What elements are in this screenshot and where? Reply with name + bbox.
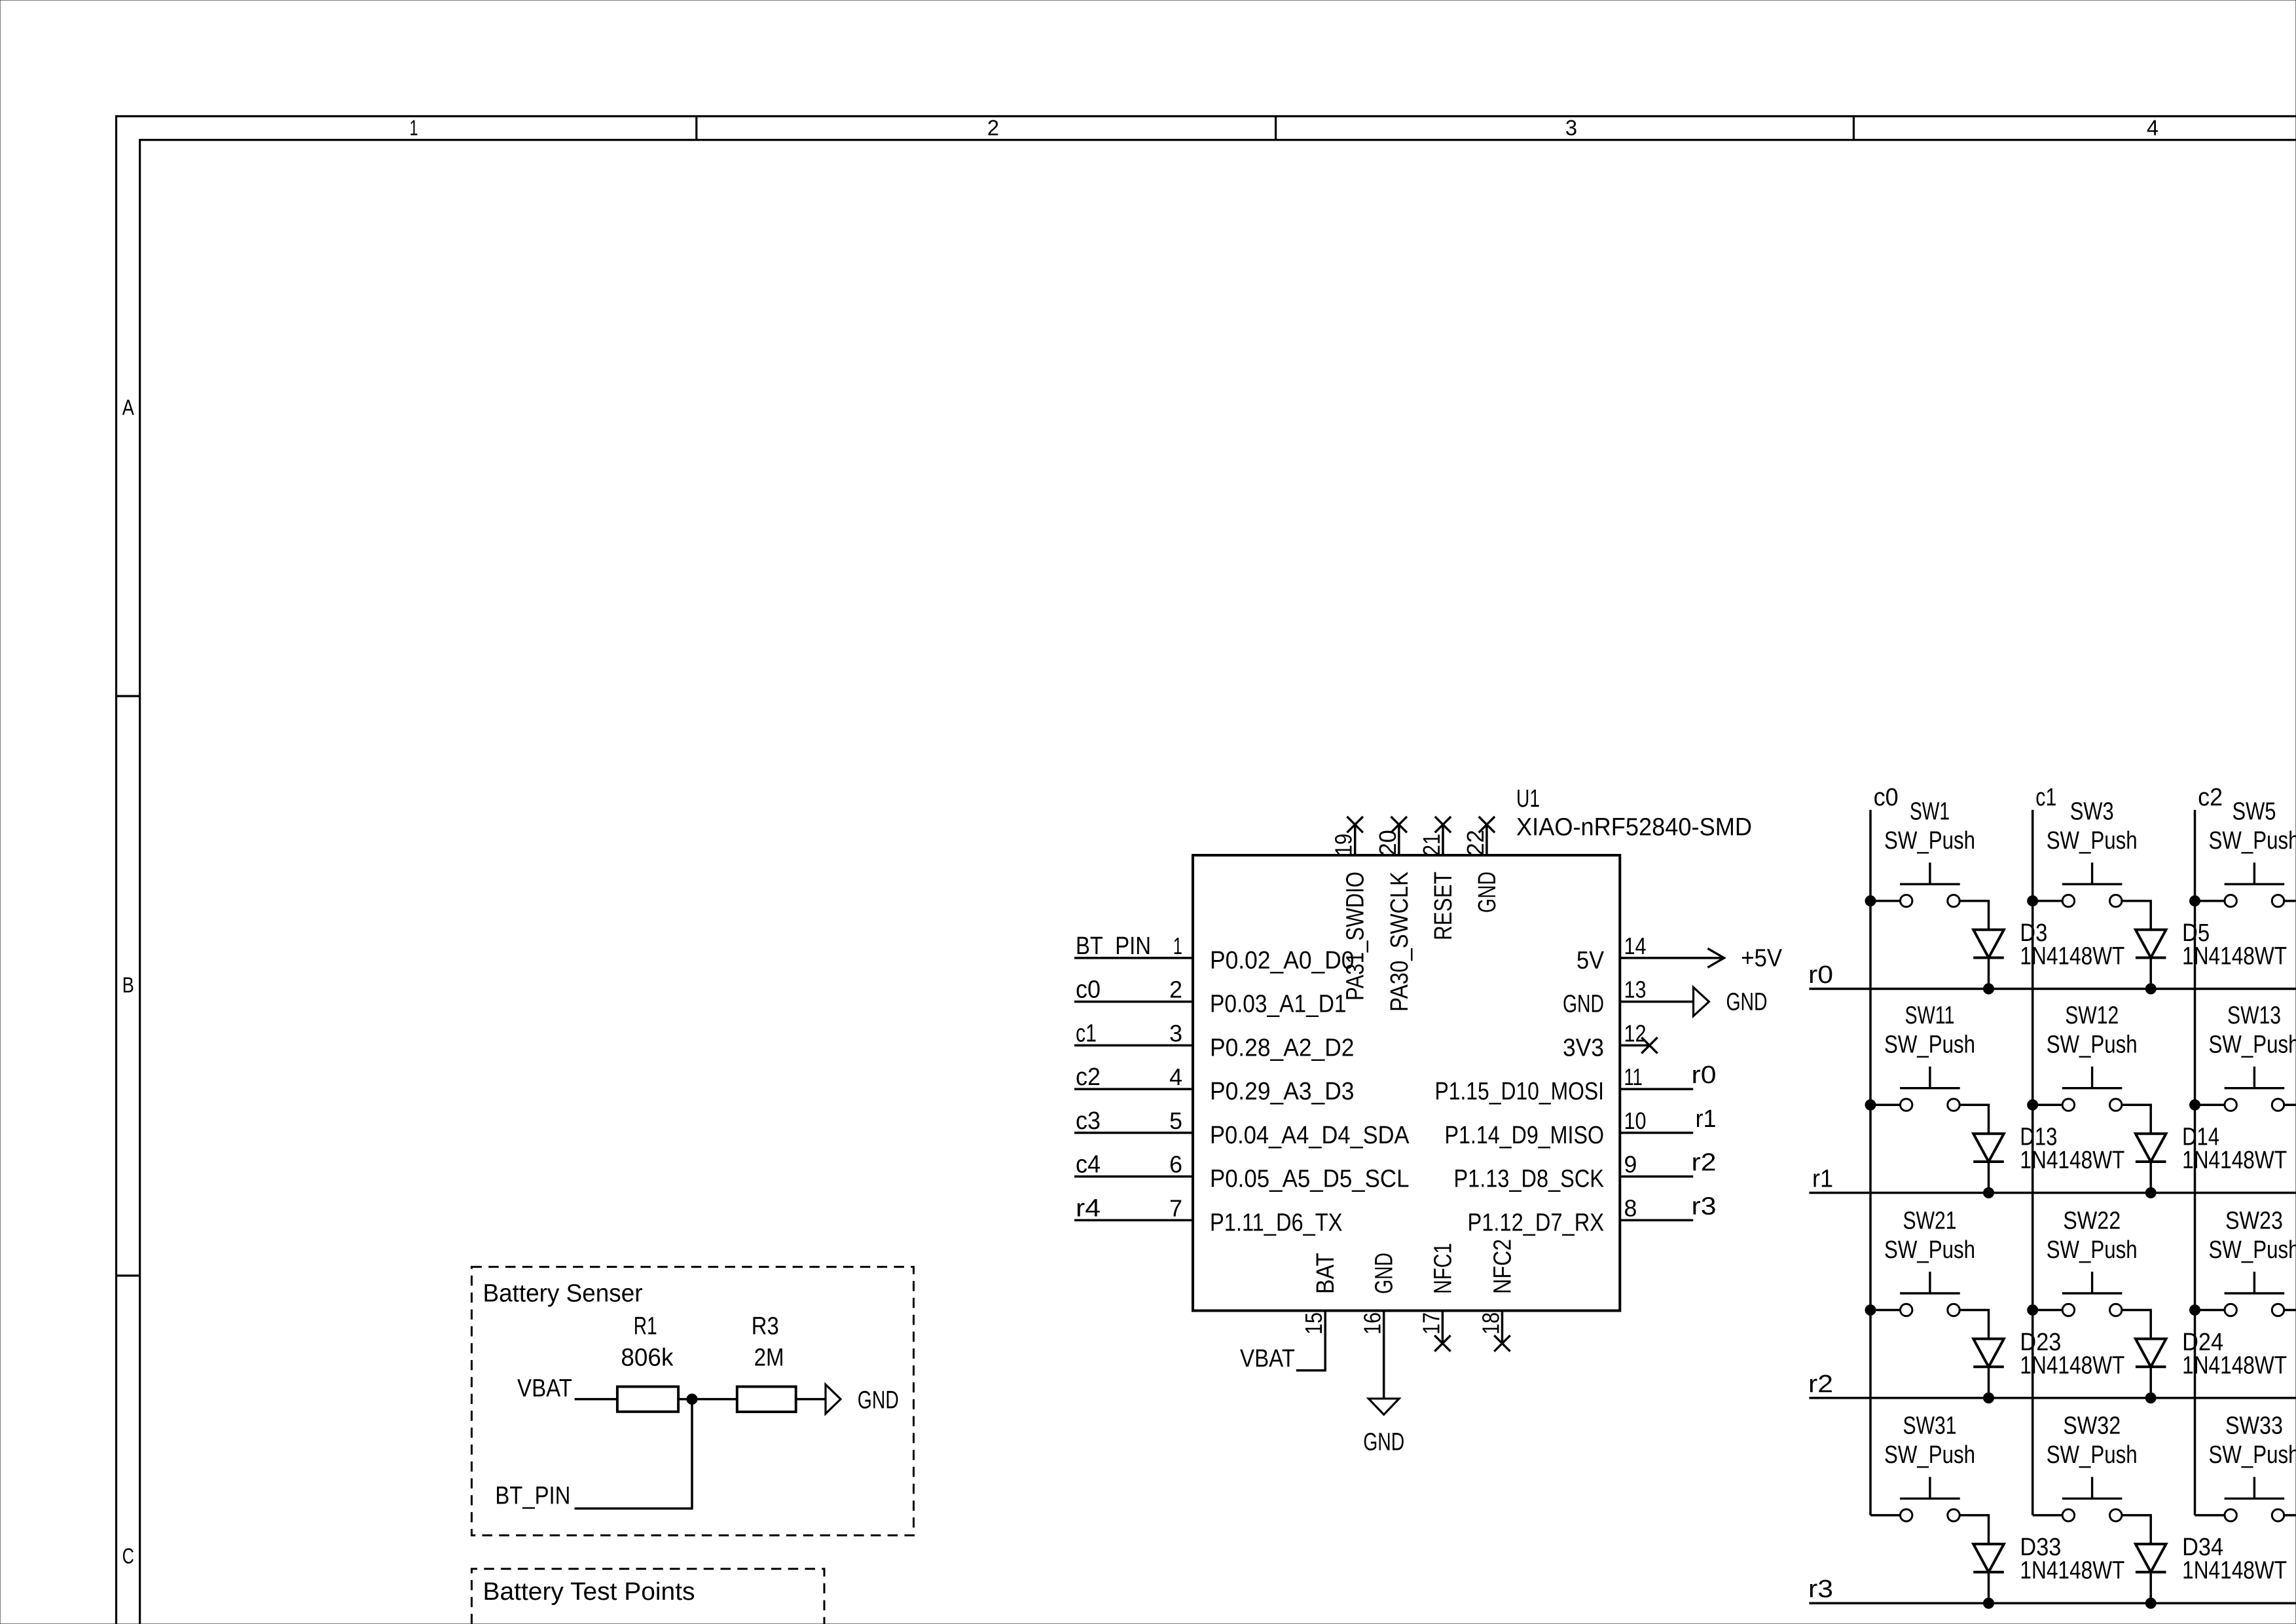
switch SW23 actuator bar <box>2225 1292 2285 1294</box>
svg-text:c1: c1 <box>1076 1020 1097 1047</box>
junction node c1 / SW22 <box>2028 1305 2038 1316</box>
svg-text:r2: r2 <box>1808 1371 1833 1398</box>
wire R1 to R3 <box>678 1398 737 1401</box>
svg-text:SW33: SW33 <box>2225 1412 2283 1440</box>
diode D3 symbol <box>1973 930 2004 958</box>
svg-text:10: 10 <box>1624 1107 1647 1134</box>
U1 pin 17 NFC1 stub <box>1442 1311 1444 1344</box>
switch SW23 right contact <box>2272 1304 2284 1316</box>
no-connect X on pin 17 <box>1434 1335 1450 1351</box>
switch SW3 left contact <box>2062 895 2074 907</box>
switch SW33 left contact <box>2225 1509 2236 1521</box>
switch SW12 actuator bar <box>2062 1087 2123 1089</box>
wire c0 to SW11 pin 1 <box>1870 1103 1901 1106</box>
wire c2 to SW23 pin 1 <box>2195 1309 2225 1312</box>
U1 pin 18 NFC2 stub <box>1501 1311 1504 1344</box>
switch SW33 actuator bar <box>2225 1498 2285 1500</box>
svg-text:SW_Push: SW_Push <box>2209 1236 2296 1264</box>
U1 pin 7 (P1.11_D6_TX) wire <box>1074 1219 1193 1222</box>
svg-text:NFC2: NFC2 <box>1489 1239 1517 1294</box>
svg-text:BT_PIN: BT_PIN <box>1076 932 1151 960</box>
U1 pin 10 wire <box>1620 1132 1693 1134</box>
switch SW32 right contact <box>2110 1509 2122 1521</box>
switch SW31 right contact <box>1948 1509 1959 1521</box>
wire c1 to SW12 pin 1 <box>2033 1103 2063 1106</box>
switch SW11 right contact <box>1948 1099 1959 1111</box>
column net c0 wire <box>1869 810 1872 1515</box>
diode cathode wire to row <box>2149 1572 2152 1604</box>
svg-text:GND: GND <box>858 1386 899 1414</box>
power symbol GND flag <box>1694 987 1709 1016</box>
svg-text:4: 4 <box>2147 116 2159 140</box>
switch SW31 actuator bar <box>1900 1498 1960 1500</box>
wire SW31 pin 2 to diode <box>1959 1515 1988 1544</box>
svg-text:SW_Push: SW_Push <box>2209 827 2296 855</box>
no-connect X on pin 19 <box>1347 817 1363 832</box>
svg-text:18: 18 <box>1478 1312 1504 1335</box>
switch SW12 left contact <box>2062 1099 2074 1111</box>
svg-text:VBAT: VBAT <box>517 1375 572 1402</box>
svg-text:P1.11_D6_TX: P1.11_D6_TX <box>1210 1209 1343 1236</box>
wire c2 to SW5 pin 1 <box>2195 900 2225 902</box>
switch SW11 actuator bar <box>1900 1087 1960 1089</box>
wire c0 to SW21 pin 1 <box>1870 1309 1901 1312</box>
diode cathode wire to row <box>1988 958 1990 989</box>
svg-text:SW1: SW1 <box>1910 798 1950 826</box>
diode D34 symbol <box>2136 1544 2166 1572</box>
wire SW22 pin 2 to diode <box>2122 1310 2151 1339</box>
switch SW5 actuator stem <box>2253 862 2255 884</box>
row net r0 wire <box>1809 987 2296 990</box>
junction node c0 / SW11 <box>1865 1099 1876 1110</box>
svg-text:6: 6 <box>1169 1151 1182 1178</box>
svg-text:C: C <box>122 1543 134 1568</box>
svg-text:r0: r0 <box>1808 961 1833 989</box>
svg-text:1N4148WT: 1N4148WT <box>2020 943 2124 970</box>
wire SW11 pin 2 to diode <box>1959 1105 1988 1134</box>
svg-text:NFC1: NFC1 <box>1429 1243 1457 1294</box>
svg-text:GND: GND <box>1474 872 1501 913</box>
svg-text:4: 4 <box>1169 1063 1182 1090</box>
switch SW22 actuator stem <box>2091 1272 2093 1293</box>
svg-text:3: 3 <box>1565 116 1577 140</box>
svg-text:SW_Push: SW_Push <box>1884 827 1975 855</box>
svg-text:17: 17 <box>1417 1312 1444 1335</box>
svg-text:12: 12 <box>1624 1020 1647 1046</box>
junction node r3 / diode <box>1984 1598 1994 1608</box>
junction node c1 / SW12 <box>2028 1099 2038 1110</box>
svg-text:SW3: SW3 <box>2070 798 2114 826</box>
svg-text:r4: r4 <box>1076 1194 1101 1222</box>
svg-text:11: 11 <box>1624 1063 1643 1090</box>
svg-text:SW_Push: SW_Push <box>2209 1441 2296 1469</box>
svg-text:SW22: SW22 <box>2063 1207 2121 1234</box>
switch SW33 actuator stem <box>2253 1477 2255 1498</box>
switch SW12 actuator stem <box>2091 1067 2093 1088</box>
svg-text:r3: r3 <box>1692 1192 1717 1220</box>
frame column divider 3|4 <box>1853 117 1855 140</box>
svg-text:PA30_SWCLK: PA30_SWCLK <box>1386 872 1413 1012</box>
switch SW11 actuator stem <box>1929 1067 1931 1088</box>
IC U1 body outline <box>1193 855 1620 1311</box>
svg-text:SW21: SW21 <box>1903 1207 1957 1234</box>
svg-text:c4: c4 <box>1076 1151 1101 1179</box>
svg-text:RESET: RESET <box>1430 872 1457 940</box>
switch SW22 right contact <box>2110 1304 2122 1316</box>
svg-text:1N4148WT: 1N4148WT <box>2182 1147 2287 1174</box>
svg-text:21: 21 <box>1418 834 1445 856</box>
junction node r3 / diode <box>2145 1598 2156 1608</box>
switch SW13 left contact <box>2225 1099 2236 1111</box>
power symbol +5V arrow <box>1707 948 1724 967</box>
switch SW21 actuator stem <box>1929 1272 1931 1293</box>
svg-text:2: 2 <box>987 116 999 140</box>
switch SW21 left contact <box>1901 1304 1912 1316</box>
svg-text:SW5: SW5 <box>2232 798 2276 826</box>
row net r1 wire <box>1809 1192 2296 1194</box>
svg-text:r2: r2 <box>1692 1149 1717 1177</box>
switch SW5 right contact <box>2272 895 2284 907</box>
switch SW3 actuator stem <box>2091 862 2093 884</box>
U1 pin 3 (P0.28_A2_D2) wire <box>1074 1044 1193 1047</box>
svg-text:XIAO-nRF52840-SMD: XIAO-nRF52840-SMD <box>1516 813 1752 841</box>
svg-text:GND: GND <box>1563 991 1604 1018</box>
row net r2 wire <box>1809 1397 2296 1399</box>
resistor R1 body <box>617 1387 678 1412</box>
svg-text:SW_Push: SW_Push <box>2209 1031 2296 1059</box>
diode D5 symbol <box>2136 930 2166 958</box>
svg-text:15: 15 <box>1300 1312 1327 1335</box>
wire VBAT to R1 <box>575 1398 617 1401</box>
wire SW5 pin 2 to diode <box>2284 901 2296 930</box>
diode cathode wire to row <box>1988 1367 1990 1398</box>
row net r3 wire <box>1809 1602 2296 1604</box>
svg-text:SW_Push: SW_Push <box>1884 1236 1975 1264</box>
svg-text:U1: U1 <box>1516 785 1540 813</box>
U1 pin 13 GND wire <box>1620 1001 1693 1003</box>
junction node r0 / diode <box>1984 984 1994 994</box>
junction node c1 / SW3 <box>2028 896 2038 906</box>
U1 pin 4 (P0.29_A3_D3) wire <box>1074 1088 1193 1090</box>
svg-text:BAT: BAT <box>1312 1253 1339 1294</box>
svg-text:P1.15_D10_MOSI: P1.15_D10_MOSI <box>1435 1078 1605 1105</box>
svg-text:GND: GND <box>1363 1429 1404 1456</box>
wire SW21 pin 2 to diode <box>1959 1310 1988 1339</box>
junction node c0 / SW21 <box>1865 1305 1876 1316</box>
no-connect X on pin 20 <box>1391 817 1407 832</box>
diode cathode wire to row <box>1988 1572 1990 1604</box>
wire c1 to SW3 pin 1 <box>2033 900 2063 902</box>
junction node r1 / diode <box>1984 1188 1994 1198</box>
junction node r2 / diode <box>1984 1393 1994 1403</box>
switch SW23 left contact <box>2225 1304 2236 1316</box>
wire c2 to SW33 pin 1 <box>2195 1514 2225 1517</box>
svg-text:1: 1 <box>1173 932 1182 959</box>
switch SW1 actuator stem <box>1929 862 1931 884</box>
svg-text:5: 5 <box>1169 1107 1182 1134</box>
svg-text:1N4148WT: 1N4148WT <box>2182 943 2287 970</box>
U1 pin 12 3V3 stub <box>1620 1044 1650 1047</box>
wire divider tap down to BT_PIN <box>575 1399 693 1509</box>
wire c2 to SW13 pin 1 <box>2195 1103 2225 1106</box>
svg-text:P0.28_A2_D2: P0.28_A2_D2 <box>1210 1034 1355 1061</box>
svg-text:P0.04_A4_D4_SDA: P0.04_A4_D4_SDA <box>1210 1122 1410 1149</box>
svg-text:P1.12_D7_RX: P1.12_D7_RX <box>1468 1209 1605 1236</box>
U1 pin 5 (P0.04_A4_D4_SDA) wire <box>1074 1132 1193 1134</box>
U1 pin 9 wire <box>1620 1175 1693 1178</box>
diode D14 symbol <box>2136 1134 2166 1162</box>
svg-text:c2: c2 <box>2198 784 2223 811</box>
svg-text:1N4148WT: 1N4148WT <box>2020 1147 2124 1174</box>
switch SW11 left contact <box>1901 1099 1912 1111</box>
svg-text:+5V: +5V <box>1741 945 1783 972</box>
switch SW3 actuator bar <box>2062 883 2123 885</box>
svg-text:7: 7 <box>1169 1194 1182 1221</box>
svg-text:R3: R3 <box>752 1313 779 1340</box>
svg-text:SW31: SW31 <box>1903 1412 1957 1440</box>
svg-text:P1.14_D9_MISO: P1.14_D9_MISO <box>1445 1122 1605 1149</box>
svg-text:P0.29_A3_D3: P0.29_A3_D3 <box>1210 1078 1355 1105</box>
switch SW33 right contact <box>2272 1509 2284 1521</box>
U1 pin 22 (GND) stub <box>1485 824 1488 855</box>
Battery Senser group box <box>471 1267 913 1536</box>
svg-text:Battery Test Points: Battery Test Points <box>483 1578 695 1606</box>
wire SW33 pin 2 to diode <box>2284 1515 2296 1544</box>
svg-text:SW_Push: SW_Push <box>2047 1441 2138 1469</box>
U1 pin 15 BAT wire to VBAT <box>1296 1311 1325 1371</box>
svg-text:9: 9 <box>1624 1151 1637 1178</box>
frame row divider B|C <box>117 1274 140 1276</box>
switch SW21 actuator bar <box>1900 1292 1960 1294</box>
frame row divider A|B <box>117 695 140 697</box>
no-connect X on pin 18 <box>1494 1335 1510 1351</box>
switch SW12 right contact <box>2110 1099 2122 1111</box>
junction node r2 / diode <box>2145 1393 2156 1403</box>
svg-text:P0.03_A1_D1: P0.03_A1_D1 <box>1210 991 1347 1018</box>
svg-text:SW_Push: SW_Push <box>1884 1031 1975 1059</box>
svg-text:P0.05_A5_D5_SCL: P0.05_A5_D5_SCL <box>1210 1166 1410 1193</box>
U1 pin 20 (PA30_SWCLK) stub <box>1398 824 1400 855</box>
switch SW3 right contact <box>2110 895 2122 907</box>
ground symbol GND <box>1368 1399 1399 1414</box>
diode cathode wire to row <box>2149 1367 2152 1398</box>
svg-text:SW_Push: SW_Push <box>1884 1441 1975 1469</box>
diode cathode wire to row <box>2149 958 2152 989</box>
switch SW32 actuator bar <box>2062 1498 2123 1500</box>
U1 pin 6 (P0.05_A5_D5_SCL) wire <box>1074 1175 1193 1178</box>
svg-text:r0: r0 <box>1692 1061 1717 1089</box>
svg-text:SW_Push: SW_Push <box>2047 1031 2138 1059</box>
svg-text:BT_PIN: BT_PIN <box>495 1482 570 1509</box>
junction node c2 / SW23 <box>2190 1305 2200 1316</box>
svg-text:c1: c1 <box>2035 784 2056 811</box>
U1 pin 16 GND wire <box>1383 1311 1385 1399</box>
svg-text:c3: c3 <box>1076 1107 1101 1135</box>
svg-text:1N4148WT: 1N4148WT <box>2020 1557 2124 1585</box>
wire c1 to SW22 pin 1 <box>2033 1309 2063 1312</box>
U1 pin 21 (RESET) stub <box>1442 824 1444 855</box>
svg-text:2M: 2M <box>754 1344 784 1372</box>
svg-text:1N4148WT: 1N4148WT <box>2020 1352 2124 1379</box>
resistor R3 body <box>737 1387 796 1412</box>
junction node r0 / diode <box>2145 984 2156 994</box>
switch SW21 right contact <box>1948 1304 1959 1316</box>
svg-text:5V: 5V <box>1576 947 1605 974</box>
svg-text:c0: c0 <box>1874 784 1899 811</box>
svg-text:1N4148WT: 1N4148WT <box>2182 1557 2287 1585</box>
switch SW13 right contact <box>2272 1099 2284 1111</box>
svg-text:1: 1 <box>410 116 418 140</box>
frame column divider 1|2 <box>695 117 697 140</box>
svg-text:GND: GND <box>1371 1253 1398 1294</box>
svg-text:r3: r3 <box>1808 1576 1833 1603</box>
svg-text:SW23: SW23 <box>2225 1207 2283 1234</box>
no-connect X on pin 12 <box>1641 1037 1657 1053</box>
svg-text:B: B <box>122 972 134 997</box>
svg-text:1N4148WT: 1N4148WT <box>2182 1352 2287 1379</box>
wire SW1 pin 2 to diode <box>1959 901 1988 930</box>
power symbol GND flag (battery divider) <box>826 1384 841 1414</box>
svg-text:c2: c2 <box>1076 1063 1101 1091</box>
wire SW32 pin 2 to diode <box>2122 1515 2151 1544</box>
diode D24 symbol <box>2136 1339 2166 1367</box>
wire R3 to GND flag <box>796 1398 826 1401</box>
svg-text:SW32: SW32 <box>2063 1412 2121 1440</box>
wire SW23 pin 2 to diode <box>2284 1310 2296 1339</box>
svg-text:VBAT: VBAT <box>1240 1345 1295 1373</box>
column net c1 wire <box>2032 810 2034 1515</box>
switch SW5 left contact <box>2225 895 2236 907</box>
switch SW22 left contact <box>2062 1304 2074 1316</box>
column net c2 wire <box>2194 810 2196 1515</box>
switch SW32 actuator stem <box>2091 1477 2093 1498</box>
U1 pin 2 (P0.03_A1_D1) wire <box>1074 1001 1193 1003</box>
wire c1 to SW32 pin 1 <box>2033 1514 2063 1517</box>
svg-text:PA31_SWDIO: PA31_SWDIO <box>1342 872 1370 1001</box>
junction node c2 / SW13 <box>2190 1099 2200 1110</box>
junction node c0 / SW1 <box>1865 896 1876 906</box>
diode D33 symbol <box>1973 1544 2004 1572</box>
diode cathode wire to row <box>1988 1162 1990 1193</box>
diode D13 symbol <box>1973 1134 2004 1162</box>
svg-text:SW13: SW13 <box>2227 1002 2281 1029</box>
svg-text:13: 13 <box>1624 976 1647 1003</box>
wire SW3 pin 2 to diode <box>2122 901 2151 930</box>
frame column divider 2|3 <box>1275 117 1277 140</box>
wire c0 to SW31 pin 1 <box>1870 1514 1901 1517</box>
switch SW1 right contact <box>1948 895 1959 907</box>
U1 pin 1 (P0.02_A0_D0) wire <box>1074 957 1193 959</box>
svg-text:R1: R1 <box>634 1313 657 1340</box>
switch SW31 left contact <box>1901 1509 1912 1521</box>
diode D23 symbol <box>1973 1339 2004 1367</box>
svg-text:14: 14 <box>1624 932 1647 959</box>
junction node r1 / diode <box>2145 1188 2156 1198</box>
switch SW5 actuator bar <box>2225 883 2285 885</box>
no-connect X on pin 22 <box>1479 817 1495 832</box>
wire SW12 pin 2 to diode <box>2122 1105 2151 1134</box>
svg-text:Battery Senser: Battery Senser <box>483 1280 643 1308</box>
svg-text:SW_Push: SW_Push <box>2047 827 2138 855</box>
no-connect X on pin 21 <box>1435 817 1451 832</box>
svg-text:r1: r1 <box>1696 1105 1717 1133</box>
svg-text:2: 2 <box>1169 976 1182 1003</box>
U1 pin 19 (PA31_SWDIO) stub <box>1354 824 1357 855</box>
svg-text:SW12: SW12 <box>2065 1002 2119 1029</box>
svg-text:8: 8 <box>1624 1194 1637 1221</box>
svg-text:20: 20 <box>1374 830 1401 856</box>
U1 pin 8 wire <box>1620 1219 1693 1222</box>
svg-text:SW_Push: SW_Push <box>2047 1236 2138 1264</box>
wire SW13 pin 2 to diode <box>2284 1105 2296 1134</box>
switch SW13 actuator bar <box>2225 1087 2285 1089</box>
U1 pin 14 5V wire <box>1620 957 1724 959</box>
svg-text:SW11: SW11 <box>1905 1002 1955 1029</box>
svg-text:806k: 806k <box>621 1344 674 1372</box>
svg-text:3V3: 3V3 <box>1563 1034 1604 1061</box>
svg-text:16: 16 <box>1359 1312 1386 1335</box>
diode cathode wire to row <box>2149 1162 2152 1193</box>
junction node BT_PIN divider tap <box>687 1394 697 1405</box>
wire c0 to SW1 pin 1 <box>1870 900 1901 902</box>
switch SW1 left contact <box>1901 895 1912 907</box>
switch SW32 left contact <box>2062 1509 2074 1521</box>
svg-text:22: 22 <box>1462 830 1489 856</box>
switch SW13 actuator stem <box>2253 1067 2255 1088</box>
svg-text:r1: r1 <box>1812 1166 1833 1193</box>
switch SW31 actuator stem <box>1929 1477 1931 1498</box>
svg-text:P1.13_D8_SCK: P1.13_D8_SCK <box>1454 1166 1605 1193</box>
switch SW23 actuator stem <box>2253 1272 2255 1293</box>
svg-text:19: 19 <box>1330 834 1357 856</box>
switch SW22 actuator bar <box>2062 1292 2123 1294</box>
junction node c2 / SW5 <box>2190 896 2200 906</box>
U1 pin 11 wire <box>1620 1088 1693 1090</box>
switch SW1 actuator bar <box>1900 883 1960 885</box>
svg-text:GND: GND <box>1726 988 1768 1016</box>
svg-text:A: A <box>122 395 134 419</box>
svg-text:c0: c0 <box>1076 976 1101 1004</box>
svg-text:P0.02_A0_D0: P0.02_A0_D0 <box>1210 947 1355 974</box>
Battery Test Points group box <box>471 1569 824 1624</box>
svg-text:3: 3 <box>1169 1020 1182 1046</box>
